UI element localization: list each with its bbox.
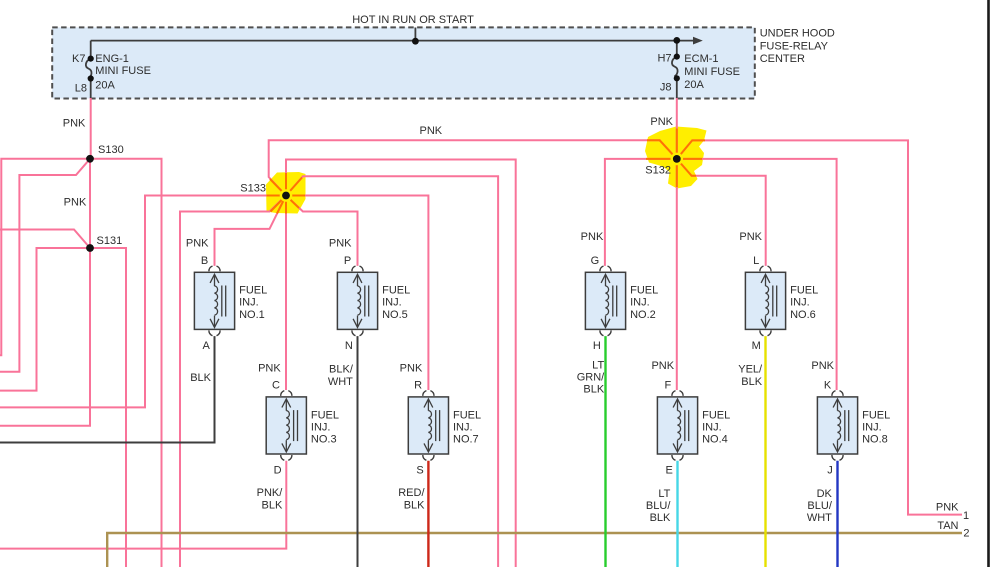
svg-text:PNK: PNK — [400, 363, 423, 375]
splice S130 — [86, 155, 94, 163]
fuse ECM-1 labels — [657, 53, 739, 94]
fuse ENG-1 element — [86, 59, 92, 79]
junction bus to ECM-1 — [673, 37, 680, 44]
svg-text:FUEL: FUEL — [311, 409, 339, 421]
wire PNK S133 to S132 long top run — [269, 140, 677, 195]
svg-text:CENTER: CENTER — [760, 53, 805, 65]
fuel injector NO.7 — [408, 391, 448, 461]
svg-text:FUEL: FUEL — [790, 285, 818, 297]
label NO.3 name — [311, 409, 339, 445]
fuse ENG-1 labels — [72, 53, 151, 95]
fuel injector NO.4 — [657, 391, 697, 461]
label NO.8 name — [862, 409, 890, 445]
svg-text:L: L — [753, 255, 759, 267]
fuel injector NO.1 — [194, 266, 234, 336]
wire PNK S133 right branch to injector NO.7 pin R — [286, 196, 428, 391]
bus drop to fuse ENG-1 — [90, 41, 92, 59]
fuel injector NO.8 — [817, 391, 857, 461]
svg-text:BLK: BLK — [262, 500, 283, 512]
svg-text:FUEL: FUEL — [382, 285, 410, 297]
svg-text:NO.3: NO.3 — [311, 433, 337, 445]
svg-text:NO.6: NO.6 — [790, 309, 816, 321]
svg-text:PNK: PNK — [64, 196, 87, 208]
wire PNK S132 down branch to injector NO.4 pin F — [676, 159, 678, 390]
svg-text:INJ.: INJ. — [239, 297, 259, 309]
wire stub from HOT label into box — [414, 28, 416, 42]
svg-text:NO.1: NO.1 — [239, 309, 265, 321]
svg-text:BLK: BLK — [583, 384, 604, 396]
wire PNK S133 left branch, exit left — [0, 196, 286, 408]
svg-text:BLK: BLK — [650, 512, 671, 524]
svg-text:INJ.: INJ. — [790, 297, 810, 309]
svg-text:INJ.: INJ. — [382, 297, 402, 309]
svg-text:E: E — [665, 465, 672, 477]
svg-text:BLK: BLK — [190, 372, 211, 384]
svg-text:R: R — [414, 380, 422, 392]
svg-text:PNK: PNK — [811, 360, 834, 372]
svg-text:NO.7: NO.7 — [453, 433, 479, 445]
svg-text:FUEL: FUEL — [630, 285, 658, 297]
svg-text:L8: L8 — [75, 82, 87, 94]
fuse ECM-1 element — [672, 57, 678, 77]
label NO.1 name — [239, 285, 267, 321]
wire YEL/BLK injector NO.6 pin M to bottom edge — [764, 336, 766, 567]
svg-text:S: S — [416, 465, 423, 477]
svg-text:BLK/: BLK/ — [329, 363, 354, 375]
svg-text:PNK: PNK — [936, 502, 959, 514]
wire PNK fuse ENG-1 L8 to S130 — [90, 98, 92, 159]
wire LT GRN/BLK injector NO.2 pin H to bottom edge — [604, 336, 606, 567]
svg-text:2: 2 — [963, 527, 969, 539]
svg-text:J8: J8 — [660, 82, 672, 94]
svg-text:UNDER HOOD: UNDER HOOD — [760, 27, 835, 39]
wire PNK S133 lower-left branch down to bottom edge — [180, 196, 286, 567]
svg-text:MINI FUSE: MINI FUSE — [95, 65, 151, 77]
svg-text:B: B — [201, 255, 208, 267]
svg-text:H7: H7 — [657, 53, 671, 65]
svg-text:P: P — [344, 255, 351, 267]
svg-text:INJ.: INJ. — [702, 421, 722, 433]
svg-text:N: N — [345, 340, 353, 352]
svg-text:K: K — [824, 380, 832, 392]
svg-text:A: A — [202, 340, 210, 352]
svg-text:S130: S130 — [98, 144, 124, 156]
wire BLK injector NO.1 pin A down, exit left — [0, 336, 215, 442]
svg-text:RED/: RED/ — [398, 487, 425, 499]
svg-text:MINI FUSE: MINI FUSE — [684, 66, 740, 78]
svg-text:PNK: PNK — [63, 118, 86, 130]
wire LT BLU/BLK injector NO.4 pin E to bottom edge — [676, 461, 678, 567]
svg-text:PNK: PNK — [186, 238, 209, 250]
svg-text:PNK: PNK — [650, 116, 673, 128]
wire BLK/WHT injector NO.5 pin N to bottom edge — [357, 336, 359, 567]
svg-text:S132: S132 — [645, 165, 671, 177]
svg-text:PNK/: PNK/ — [257, 487, 284, 499]
svg-text:NO.4: NO.4 — [702, 433, 728, 445]
highlight blob at S132 — [645, 127, 707, 189]
svg-text:BLU/: BLU/ — [646, 500, 671, 512]
wire PNK S133 diagonal branch right run down to bottom — [286, 176, 498, 567]
svg-text:G: G — [591, 255, 600, 267]
svg-text:ECM-1: ECM-1 — [684, 53, 718, 65]
wire PNK S131 down branch, exit left — [0, 248, 90, 426]
label NO.4 name — [702, 409, 730, 445]
wire fuse ECM-1 J8 to box edge — [676, 78, 678, 98]
svg-text:HOT IN RUN OR START: HOT IN RUN OR START — [352, 14, 474, 26]
wire PNK S132 lower branch to injector NO.6 pin L — [677, 159, 766, 266]
svg-text:LT: LT — [658, 488, 670, 500]
highlight blob at S133 — [266, 172, 306, 214]
svg-text:PNK: PNK — [739, 231, 762, 243]
label NO.7 name — [453, 409, 481, 445]
wire PNK S132 left branch to injector NO.2 pin G — [605, 159, 677, 266]
terminal H7 — [674, 54, 680, 60]
splice S132 — [673, 155, 681, 163]
bus drop to fuse ECM-1 — [676, 40, 678, 56]
label NO.6 name — [790, 285, 818, 321]
terminal K7 — [88, 56, 94, 62]
svg-text:DK: DK — [817, 488, 833, 500]
splice S133 — [282, 192, 290, 200]
svg-text:NO.5: NO.5 — [382, 309, 408, 321]
wire PNK S130 right branch down to bottom edge — [90, 159, 162, 567]
wire PNK fuse ECM-1 J8 to S132 — [676, 98, 678, 159]
svg-text:C: C — [272, 380, 280, 392]
wire PNK S131 left branch down, exit left — [0, 248, 90, 391]
wire DK BLU/WHT injector NO.8 pin J to bottom edge — [836, 461, 838, 567]
wire PNK S131 right branch down to bottom edge — [90, 248, 126, 567]
svg-text:PNK: PNK — [258, 363, 281, 375]
svg-text:1: 1 — [963, 510, 969, 522]
svg-text:NO.8: NO.8 — [862, 433, 888, 445]
label UNDER HOOD FUSE-RELAY CENTER — [760, 27, 835, 65]
bus arrow — [693, 37, 703, 45]
svg-text:LT: LT — [592, 360, 604, 372]
wire PNK left edge diagonal into S131 — [0, 230, 90, 249]
svg-text:20A: 20A — [684, 79, 704, 91]
svg-text:S131: S131 — [97, 235, 123, 247]
svg-text:H: H — [593, 340, 601, 352]
label NO.5 name — [382, 285, 410, 321]
svg-text:WHT: WHT — [807, 512, 832, 524]
halo at S132 — [671, 153, 684, 166]
svg-text:TAN: TAN — [937, 520, 958, 532]
fuel injector NO.3 — [266, 391, 306, 461]
fuel injector NO.6 — [745, 266, 785, 336]
wire PNK S133 lower-right branch to injector NO.5 pin P — [286, 196, 358, 266]
wire PNK S130 to S131 — [89, 159, 91, 248]
wire fuse ENG-1 L8 to box edge — [90, 79, 92, 99]
wire PNK S132 right branch to injector NO.8 pin K — [677, 159, 837, 390]
svg-text:INJ.: INJ. — [453, 421, 473, 433]
svg-text:NO.2: NO.2 — [630, 309, 656, 321]
svg-text:FUEL: FUEL — [702, 409, 730, 421]
splice S131 — [86, 244, 94, 252]
wire TAN bottom run to right edge exit 2 — [107, 533, 962, 567]
svg-text:INJ.: INJ. — [862, 421, 882, 433]
svg-text:BLK: BLK — [404, 500, 425, 512]
svg-text:YEL/: YEL/ — [738, 363, 763, 375]
wire PNK S133 branch to injector NO.1 pin B — [215, 196, 287, 266]
svg-text:PNK: PNK — [651, 360, 674, 372]
highlighted wire segments at S133 — [267, 129, 706, 214]
svg-text:INJ.: INJ. — [311, 421, 331, 433]
svg-text:PNK: PNK — [329, 238, 352, 250]
fuel injector NO.5 — [337, 266, 377, 336]
wire PNK S133 down branch to injector NO.3 pin C — [285, 196, 287, 391]
svg-text:FUEL: FUEL — [453, 409, 481, 421]
wire PNK/BLK injector NO.3 pin D down, exit left — [0, 461, 286, 549]
bus wire hot in run or start — [86, 28, 694, 99]
fuel injector NO.2 — [585, 266, 625, 336]
highlighted wire segments at S132 — [646, 129, 705, 188]
svg-text:BLU/: BLU/ — [807, 500, 832, 512]
svg-text:INJ.: INJ. — [630, 297, 650, 309]
svg-text:F: F — [664, 380, 671, 392]
svg-text:M: M — [752, 340, 761, 352]
svg-text:PNK: PNK — [581, 231, 604, 243]
svg-text:FUEL: FUEL — [239, 285, 267, 297]
terminal J8 — [674, 75, 680, 81]
wire RED/BLK injector NO.7 pin S to bottom edge — [427, 461, 429, 567]
svg-text:20A: 20A — [95, 80, 115, 92]
svg-text:ENG-1: ENG-1 — [95, 53, 129, 65]
wire PNK S130 diagonal branch to x19 down, exit left — [0, 159, 90, 372]
junction under HOT label — [412, 38, 419, 45]
under hood fuse-relay center box — [52, 27, 755, 98]
svg-text:FUEL: FUEL — [862, 409, 890, 421]
svg-text:S133: S133 — [240, 183, 266, 195]
wire PNK S133 up branch right run down to bottom — [286, 160, 516, 567]
svg-text:WHT: WHT — [328, 376, 353, 388]
svg-text:K7: K7 — [72, 53, 85, 65]
svg-text:BLK: BLK — [741, 376, 762, 388]
svg-text:PNK: PNK — [420, 125, 443, 137]
halo at S133 — [280, 189, 293, 202]
svg-text:GRN/: GRN/ — [577, 372, 605, 384]
page edge line right — [987, 0, 990, 567]
svg-text:J: J — [827, 465, 833, 477]
wire PNK S132 to right edge exit 1 — [677, 140, 962, 514]
wire PNK S130 left branch to left edge, down, exit — [0, 159, 90, 355]
terminal L8 — [88, 75, 94, 81]
label NO.2 name — [630, 285, 658, 321]
svg-text:FUSE-RELAY: FUSE-RELAY — [760, 40, 829, 52]
svg-text:D: D — [274, 465, 282, 477]
